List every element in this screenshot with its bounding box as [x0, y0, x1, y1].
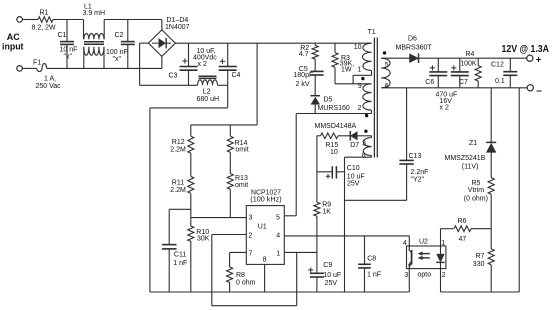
svg-text:C13: C13	[409, 153, 422, 160]
svg-text:9: 9	[358, 83, 362, 90]
svg-text:C3: C3	[169, 72, 178, 79]
svg-text:1 nF: 1 nF	[367, 271, 381, 278]
svg-text:R12: R12	[172, 139, 185, 146]
svg-text:3: 3	[362, 140, 366, 147]
svg-text:2.2M: 2.2M	[170, 146, 186, 153]
svg-text:2 kV: 2 kV	[296, 81, 310, 88]
svg-text:330: 330	[473, 261, 485, 268]
svg-text:input: input	[2, 42, 24, 53]
svg-text:R6: R6	[458, 218, 467, 225]
svg-text:C6: C6	[425, 79, 434, 86]
svg-text:"Y2": "Y2"	[411, 176, 425, 183]
svg-text:C2: C2	[115, 32, 124, 39]
svg-text:2: 2	[358, 105, 362, 112]
svg-text:3: 3	[404, 272, 408, 279]
svg-text:12V @ 1.3A: 12V @ 1.3A	[502, 44, 550, 55]
svg-text:D6: D6	[408, 35, 417, 42]
svg-text:C8: C8	[367, 255, 376, 262]
svg-text:–: –	[536, 85, 542, 96]
svg-text:1: 1	[441, 240, 445, 247]
svg-text:100 nF: 100 nF	[106, 49, 128, 56]
svg-text:0 ohm: 0 ohm	[236, 280, 256, 287]
svg-text:8: 8	[362, 153, 366, 160]
svg-text:4: 4	[276, 232, 280, 239]
svg-text:L2: L2	[203, 89, 211, 96]
svg-text:C9: C9	[323, 262, 332, 269]
svg-text:7: 7	[249, 251, 253, 258]
svg-text:(0 ohm): (0 ohm)	[464, 195, 488, 202]
svg-text:25V: 25V	[325, 280, 338, 287]
svg-text:C10: C10	[347, 165, 360, 172]
svg-text:C1: C1	[58, 32, 67, 39]
svg-text:+: +	[536, 55, 542, 66]
svg-text:R11: R11	[172, 180, 184, 187]
svg-text:1: 1	[357, 67, 361, 74]
svg-text:C4: C4	[232, 72, 241, 79]
svg-text:D5: D5	[324, 96, 333, 103]
svg-text:4.7: 4.7	[299, 51, 309, 58]
svg-text:U2: U2	[419, 238, 428, 245]
svg-text:omit: omit	[235, 182, 248, 189]
svg-text:MMSD4148A: MMSD4148A	[315, 123, 357, 130]
svg-text:6: 6	[385, 83, 389, 90]
svg-text:D7: D7	[350, 142, 359, 149]
svg-text:MMSZ5241B: MMSZ5241B	[445, 155, 486, 162]
svg-text:1 A,: 1 A,	[44, 76, 56, 83]
svg-text:1K: 1K	[322, 209, 331, 216]
svg-text:4: 4	[403, 240, 407, 247]
svg-text:R8: R8	[236, 272, 245, 279]
svg-text:5: 5	[276, 215, 280, 222]
svg-text:10 uF: 10 uF	[323, 272, 341, 279]
svg-text:"x": "x"	[64, 53, 73, 60]
svg-text:x 2: x 2	[440, 105, 449, 112]
svg-text:180pF: 180pF	[293, 72, 313, 79]
svg-text:MBRS360T: MBRS360T	[396, 45, 433, 52]
svg-text:C7: C7	[459, 79, 468, 86]
svg-text:1N4007: 1N4007	[165, 24, 190, 31]
svg-text:1W: 1W	[341, 66, 352, 73]
svg-text:(11V): (11V)	[462, 163, 479, 170]
svg-text:1: 1	[276, 250, 280, 257]
svg-text:"x": "x"	[113, 56, 122, 63]
svg-text:R9: R9	[322, 201, 331, 208]
svg-text:250 Vac: 250 Vac	[36, 83, 62, 90]
svg-text:opto: opto	[418, 272, 432, 279]
svg-text:3: 3	[249, 215, 253, 222]
svg-text:Z1: Z1	[469, 140, 477, 147]
svg-text:2.2M: 2.2M	[170, 187, 186, 194]
svg-text:C12: C12	[491, 61, 504, 68]
svg-text:MURS160: MURS160	[318, 105, 350, 112]
svg-text:8.2, 2W: 8.2, 2W	[32, 25, 57, 32]
svg-text:2: 2	[442, 272, 446, 279]
svg-text:3.9 mH: 3.9 mH	[83, 10, 106, 17]
svg-text:30K: 30K	[197, 235, 210, 242]
svg-text:47: 47	[459, 236, 467, 243]
svg-text:(100 kHz): (100 kHz)	[250, 196, 281, 203]
svg-text:R4: R4	[466, 51, 475, 58]
svg-text:100K: 100K	[460, 60, 477, 67]
svg-text:R1: R1	[40, 10, 49, 17]
svg-text:omit: omit	[235, 146, 248, 153]
svg-text:10: 10	[330, 149, 338, 156]
svg-text:10: 10	[354, 44, 362, 51]
svg-text:T1: T1	[368, 29, 376, 36]
svg-text:U1: U1	[258, 224, 267, 231]
svg-text:5: 5	[385, 62, 389, 69]
svg-text:F1: F1	[33, 59, 41, 66]
svg-text:C11: C11	[174, 251, 186, 258]
svg-text:x 2: x 2	[198, 61, 207, 68]
svg-text:8: 8	[263, 257, 267, 264]
svg-text:R7: R7	[476, 253, 485, 260]
svg-text:1 nF: 1 nF	[173, 260, 187, 267]
svg-text:25V: 25V	[347, 180, 360, 187]
svg-text:0.1: 0.1	[495, 78, 505, 85]
svg-text:2.2nF: 2.2nF	[411, 169, 429, 176]
svg-text:680 uH: 680 uH	[197, 96, 220, 103]
svg-text:2: 2	[249, 233, 253, 240]
svg-text:Vtrim: Vtrim	[468, 187, 485, 194]
